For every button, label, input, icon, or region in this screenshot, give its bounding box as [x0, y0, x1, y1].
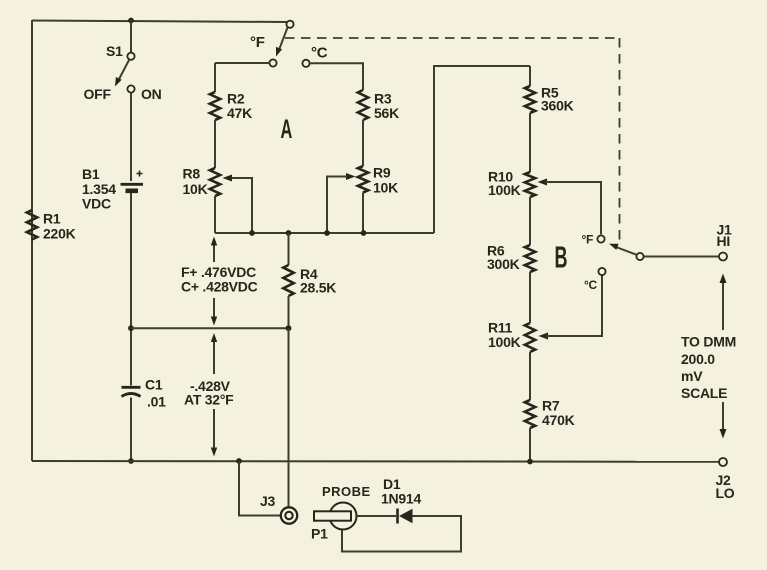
svg-text:SCALE: SCALE — [681, 385, 727, 401]
probe P1 — [330, 503, 357, 530]
svg-text:300K: 300K — [487, 256, 520, 272]
wire bottom horizontal — [32, 460, 719, 463]
svg-text:470K: 470K — [542, 412, 575, 428]
svg-text:1N914: 1N914 — [381, 491, 421, 507]
battery B1 — [121, 183, 144, 186]
wire R6 to R11 — [529, 272, 531, 323]
wire bridge to B network — [434, 66, 530, 233]
node R9 branch junction — [361, 230, 367, 236]
switch A C contact — [302, 60, 309, 67]
potentiometer R10 — [525, 172, 535, 197]
wire F contact to bridge left — [215, 62, 269, 64]
svg-text:mV: mV — [681, 368, 703, 384]
svg-text:°C: °C — [584, 278, 598, 292]
switch B C contact — [598, 268, 605, 275]
connector J3 — [281, 507, 297, 523]
svg-text:28.5K: 28.5K — [300, 280, 336, 296]
svg-text:ON: ON — [141, 86, 162, 102]
wire R4 upper — [288, 233, 290, 265]
annotation arrow F/C voltage — [213, 239, 215, 262]
svg-text:10K: 10K — [373, 179, 398, 195]
resistor R7 — [525, 400, 535, 428]
svg-text:HI: HI — [717, 233, 731, 249]
potentiometer R11 — [525, 323, 535, 352]
annotation arrow to J2 — [722, 402, 724, 435]
wire S1 upper stub — [130, 21, 132, 53]
wire ON contact to battery — [130, 93, 132, 181]
switch B arm — [636, 253, 643, 260]
potentiometer R8 — [210, 168, 220, 196]
diode D1 — [396, 509, 399, 524]
potentiometer R9 — [358, 166, 368, 193]
switch A F contact — [269, 59, 276, 66]
svg-text:A: A — [281, 114, 293, 144]
wire R5 to R10 — [529, 113, 531, 172]
wire R10 to R6 — [529, 197, 531, 245]
annotation arrow -.428V — [213, 336, 215, 374]
resistor R1 — [31, 20, 33, 210]
svg-text:J3: J3 — [260, 493, 276, 509]
wire C1 to bottom — [130, 398, 132, 462]
svg-text:B: B — [555, 241, 568, 275]
wire left border vertical — [31, 20, 33, 461]
annotation arrow to J1 — [722, 277, 724, 330]
node junction mid-wire left — [128, 325, 134, 331]
wire R9 to bottom — [362, 193, 364, 234]
svg-text:220K: 220K — [43, 226, 76, 242]
wire C contact to bridge right — [310, 63, 363, 90]
wire R4 to mid junction — [288, 296, 290, 328]
resistor R4 — [283, 265, 293, 296]
switch A common — [286, 21, 293, 28]
svg-text:R11: R11 — [488, 320, 513, 336]
wire B column top — [529, 66, 531, 86]
svg-text:PROBE: PROBE — [322, 484, 371, 499]
wire R7 to bottom — [529, 428, 531, 462]
wiper R8 — [223, 175, 233, 182]
svg-text:TO DMM: TO DMM — [681, 334, 736, 350]
node R4 top junction — [286, 230, 292, 236]
wiper R9 — [346, 173, 356, 180]
svg-text:100K: 100K — [488, 182, 521, 198]
svg-text:C+ .428VDC: C+ .428VDC — [181, 279, 258, 295]
connector J2 — [719, 458, 727, 466]
connector J1 — [719, 253, 727, 261]
svg-text:°F: °F — [582, 233, 594, 247]
svg-text:°F: °F — [250, 34, 265, 51]
wire R2 to R8 — [214, 120, 216, 168]
capacitor C1 — [122, 386, 141, 389]
wire bridge bottom — [215, 232, 434, 234]
svg-text:10K: 10K — [183, 181, 208, 197]
switch B F contact — [597, 235, 604, 242]
resistor R6 — [525, 245, 535, 272]
wire top horizontal — [32, 21, 287, 23]
wire J3 branch — [239, 461, 280, 516]
svg-text:P1: P1 — [311, 526, 328, 542]
wire bridge left top — [214, 63, 216, 92]
svg-text:AT 32°F: AT 32°F — [184, 392, 234, 408]
resistor R2 — [210, 92, 220, 120]
svg-text:OFF: OFF — [84, 86, 112, 102]
wire R4 node to J3 center — [288, 328, 290, 507]
svg-text:56K: 56K — [374, 105, 399, 121]
wire R3 to R9 — [362, 120, 364, 166]
svg-text:C1: C1 — [145, 376, 163, 392]
resistor R3 — [358, 90, 368, 120]
node B column bottom junction — [527, 459, 533, 465]
wire R11 to R7 — [529, 352, 531, 400]
wire probe to diode — [357, 515, 397, 517]
wire battery to C1 — [130, 193, 132, 386]
node junction bottom (C1 branch) — [128, 458, 134, 464]
svg-text:VDC: VDC — [82, 196, 111, 212]
svg-text:R1: R1 — [43, 211, 61, 227]
svg-text:S1: S1 — [106, 43, 123, 59]
svg-text:B1: B1 — [82, 166, 100, 182]
switch S1 — [127, 53, 134, 60]
wire diode loop — [342, 516, 461, 552]
svg-text:47K: 47K — [227, 105, 252, 121]
wire switch B to J1 — [644, 256, 719, 258]
wire R8 to bottom — [214, 196, 216, 233]
node mid-wire right junction — [286, 325, 292, 331]
wiper R11 — [539, 333, 549, 340]
wire mid horizontal — [131, 327, 289, 329]
svg-text:360K: 360K — [541, 98, 574, 114]
svg-text:.01: .01 — [147, 393, 166, 409]
node R8 wiper junction — [249, 230, 255, 236]
svg-text:°C: °C — [311, 45, 328, 62]
node junction top (battery branch) — [128, 18, 134, 24]
node J3 branch junction — [236, 458, 242, 464]
resistor R5 — [525, 86, 535, 113]
node R9 wiper junction — [324, 230, 330, 236]
switch S1 ON contact — [127, 85, 134, 92]
svg-text:100K: 100K — [488, 334, 521, 350]
svg-text:R9: R9 — [373, 165, 391, 181]
svg-text:200.0: 200.0 — [681, 351, 715, 367]
wire mech link dashed — [285, 37, 620, 39]
svg-text:R8: R8 — [183, 165, 201, 181]
svg-text:LO: LO — [716, 485, 735, 501]
wiper R10 — [538, 179, 548, 186]
